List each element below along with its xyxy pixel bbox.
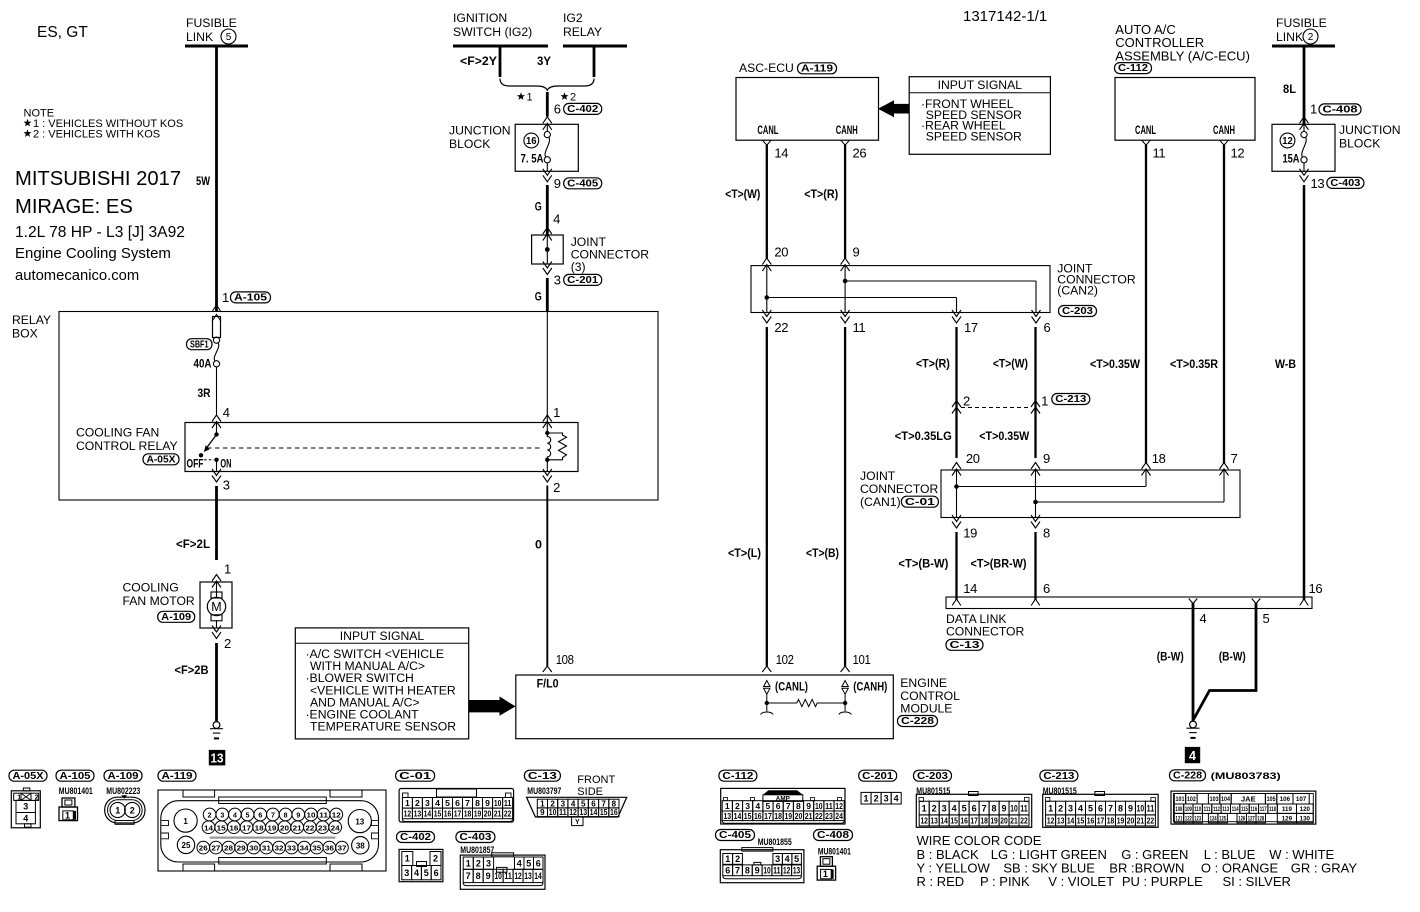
svg-text:C-01: C-01 bbox=[905, 497, 935, 508]
svg-text:14: 14 bbox=[590, 808, 598, 817]
svg-text:17: 17 bbox=[242, 825, 251, 832]
input signal box (A/C etc) bbox=[295, 628, 468, 739]
svg-text:MU801401: MU801401 bbox=[59, 786, 93, 796]
svg-text:V : VIOLET: V : VIOLET bbox=[1048, 874, 1114, 889]
svg-text:124: 124 bbox=[1210, 815, 1217, 822]
svg-text:102: 102 bbox=[1187, 796, 1196, 803]
svg-text:13: 13 bbox=[793, 866, 800, 876]
svg-text:FUSIBLE: FUSIBLE bbox=[186, 16, 237, 30]
svg-text:9: 9 bbox=[540, 808, 545, 817]
svg-text:C-01: C-01 bbox=[399, 771, 431, 782]
svg-text:22: 22 bbox=[1147, 815, 1155, 825]
svg-text:7. 5A: 7. 5A bbox=[521, 152, 544, 166]
svg-text:5: 5 bbox=[226, 32, 232, 43]
svg-text:16: 16 bbox=[229, 825, 238, 832]
svg-text:8: 8 bbox=[612, 799, 617, 808]
svg-text:103: 103 bbox=[1210, 796, 1219, 803]
svg-text:9: 9 bbox=[554, 176, 561, 191]
svg-text:C-13: C-13 bbox=[950, 640, 980, 651]
svg-text:(CAN1): (CAN1) bbox=[860, 495, 901, 509]
svg-text:5: 5 bbox=[1263, 611, 1270, 626]
svg-text:<F>2L: <F>2L bbox=[176, 537, 210, 551]
svg-text:SWITCH (IG2): SWITCH (IG2) bbox=[453, 25, 532, 39]
svg-text:7: 7 bbox=[1231, 451, 1238, 466]
svg-text:15: 15 bbox=[600, 808, 608, 817]
ECM CAN termination bbox=[761, 680, 888, 715]
svg-text:20: 20 bbox=[774, 245, 788, 260]
data link connector C-13 box bbox=[946, 597, 1312, 651]
svg-text:C-228: C-228 bbox=[901, 716, 934, 727]
svg-text:SIDE: SIDE bbox=[577, 786, 603, 798]
svg-text:37: 37 bbox=[338, 846, 347, 853]
svg-text:11: 11 bbox=[1020, 803, 1027, 813]
CAN1 exits 19 8 bbox=[952, 515, 1050, 541]
svg-text:BLOCK: BLOCK bbox=[449, 137, 490, 151]
svg-text:14: 14 bbox=[1067, 815, 1075, 825]
svg-text:15: 15 bbox=[950, 815, 958, 825]
svg-text:SBF1: SBF1 bbox=[190, 339, 209, 350]
svg-text:INPUT SIGNAL: INPUT SIGNAL bbox=[340, 629, 425, 643]
IG2 relay bbox=[537, 11, 627, 77]
svg-text:7: 7 bbox=[786, 801, 791, 811]
svg-text:C-402: C-402 bbox=[400, 832, 431, 843]
svg-text:1: 1 bbox=[183, 817, 188, 826]
svg-text:C-402: C-402 bbox=[567, 104, 598, 115]
svg-text:4: 4 bbox=[414, 868, 419, 878]
svg-text:17: 17 bbox=[1097, 815, 1105, 825]
svg-text:11: 11 bbox=[504, 798, 512, 808]
svg-text:<T>0.35W: <T>0.35W bbox=[979, 429, 1030, 443]
svg-text:11: 11 bbox=[825, 801, 833, 811]
svg-text:12: 12 bbox=[783, 866, 790, 876]
svg-text:4: 4 bbox=[1078, 803, 1083, 813]
svg-text:5: 5 bbox=[766, 801, 771, 811]
svg-text:1.2L 78 HP - L3 [J] 3A92: 1.2L 78 HP - L3 [J] 3A92 bbox=[15, 224, 185, 241]
svg-text:130: 130 bbox=[1300, 815, 1311, 822]
svg-text:31: 31 bbox=[262, 846, 271, 853]
svg-text:ENGINE: ENGINE bbox=[900, 676, 947, 690]
svg-text:CANL: CANL bbox=[1135, 123, 1156, 137]
svg-text:M: M bbox=[211, 600, 221, 614]
svg-text:MU801855: MU801855 bbox=[758, 837, 792, 847]
svg-text:SI : SILVER: SI : SILVER bbox=[1223, 874, 1291, 889]
svg-text:11: 11 bbox=[773, 866, 780, 876]
svg-text:A-119: A-119 bbox=[801, 63, 833, 74]
svg-text:102: 102 bbox=[776, 652, 794, 667]
svg-text:12: 12 bbox=[1282, 136, 1293, 147]
svg-text:38: 38 bbox=[356, 842, 365, 851]
wire 8L to junction block bbox=[1283, 46, 1361, 130]
svg-text:15: 15 bbox=[744, 811, 752, 821]
ASC-ECU pins 14 26 bbox=[763, 140, 867, 160]
svg-text:27: 27 bbox=[211, 846, 220, 853]
C-228 ref label under ground bbox=[1170, 770, 1206, 781]
svg-text:30: 30 bbox=[249, 846, 258, 853]
svg-text:120: 120 bbox=[1300, 806, 1311, 813]
svg-text:8: 8 bbox=[992, 803, 997, 813]
svg-text:9: 9 bbox=[296, 813, 300, 820]
connector C-405 bbox=[716, 830, 804, 883]
wire 22 to ECM 102, T(L) bbox=[728, 327, 794, 672]
svg-text:C-203: C-203 bbox=[1062, 306, 1093, 317]
svg-text:ES, GT: ES, GT bbox=[37, 24, 88, 41]
node 1 A-105 bbox=[212, 290, 270, 321]
wire G into relay box bbox=[535, 278, 548, 312]
svg-text:22: 22 bbox=[815, 811, 823, 821]
svg-text:18: 18 bbox=[1107, 815, 1115, 825]
svg-text:28: 28 bbox=[224, 846, 233, 853]
svg-text:13: 13 bbox=[579, 808, 587, 817]
ASC-ECU A-119 box bbox=[736, 61, 879, 140]
svg-text:1317142-1/1: 1317142-1/1 bbox=[963, 8, 1047, 25]
svg-text:11: 11 bbox=[559, 808, 567, 817]
connector C-213 bbox=[1040, 770, 1158, 827]
svg-text:114: 114 bbox=[1232, 806, 1239, 813]
svg-text:ASC-ECU: ASC-ECU bbox=[739, 61, 794, 75]
relay box bbox=[12, 312, 658, 501]
svg-text:111: 111 bbox=[1204, 806, 1211, 813]
wire CANL 14-20, T(W) bbox=[725, 145, 788, 271]
svg-text:6: 6 bbox=[554, 102, 561, 117]
svg-text:118: 118 bbox=[1269, 806, 1276, 813]
svg-text:3: 3 bbox=[775, 854, 780, 864]
svg-text:<T>(R): <T>(R) bbox=[916, 357, 950, 371]
svg-text:13: 13 bbox=[524, 871, 531, 881]
svg-text:MODULE: MODULE bbox=[900, 702, 952, 716]
svg-text:12: 12 bbox=[514, 871, 521, 881]
svg-text:9: 9 bbox=[1002, 803, 1007, 813]
svg-text:<T>(B): <T>(B) bbox=[806, 546, 839, 560]
connector C-112 bbox=[719, 770, 845, 824]
svg-text:40A: 40A bbox=[194, 357, 212, 371]
svg-text:19: 19 bbox=[963, 526, 977, 541]
svg-text:MU802223: MU802223 bbox=[106, 786, 140, 796]
node 13 C-403, wire W-B to DLC 16 bbox=[1275, 176, 1364, 606]
svg-text:2: 2 bbox=[208, 813, 212, 820]
svg-text:GR : GRAY: GR : GRAY bbox=[1291, 861, 1358, 876]
connector C-203 bbox=[914, 770, 1032, 827]
svg-text:2: 2 bbox=[874, 793, 879, 803]
svg-text:105: 105 bbox=[1267, 796, 1276, 803]
svg-text:3: 3 bbox=[554, 273, 561, 288]
svg-text:121: 121 bbox=[1176, 815, 1183, 822]
svg-text:A-109: A-109 bbox=[108, 771, 139, 782]
svg-text:JUNCTION: JUNCTION bbox=[449, 124, 511, 138]
connector A-109 bbox=[104, 770, 145, 824]
svg-text:8: 8 bbox=[1118, 803, 1123, 813]
svg-text:5: 5 bbox=[794, 854, 799, 864]
svg-text:7: 7 bbox=[1108, 803, 1113, 813]
svg-text:4: 4 bbox=[571, 799, 576, 808]
svg-text:2: 2 bbox=[415, 798, 420, 808]
svg-text:18: 18 bbox=[1152, 451, 1166, 466]
svg-text:17: 17 bbox=[970, 815, 978, 825]
svg-text:A-05X: A-05X bbox=[13, 771, 44, 782]
svg-text:7: 7 bbox=[271, 813, 275, 820]
svg-text:13: 13 bbox=[414, 808, 422, 818]
svg-text:9: 9 bbox=[485, 798, 490, 808]
svg-text:5: 5 bbox=[424, 868, 429, 878]
svg-text:3: 3 bbox=[942, 803, 947, 813]
input signal box (wheel speed sensors) bbox=[909, 77, 1050, 155]
svg-text:6: 6 bbox=[1043, 581, 1050, 596]
svg-text:12: 12 bbox=[920, 815, 928, 825]
junction block 12 15A bbox=[1272, 123, 1401, 182]
svg-text:1: 1 bbox=[405, 854, 410, 864]
svg-text:C-403: C-403 bbox=[459, 832, 491, 843]
svg-text:ASSEMBLY (A/C-ECU): ASSEMBLY (A/C-ECU) bbox=[1115, 48, 1250, 63]
CAN1 internal links bbox=[954, 470, 1224, 518]
svg-text:16: 16 bbox=[960, 815, 968, 825]
wire color code legend bbox=[917, 833, 1358, 889]
relay coil and resistor pin 1 / pin 2 bbox=[543, 312, 567, 496]
svg-text:12: 12 bbox=[332, 813, 341, 820]
svg-text:10: 10 bbox=[1137, 803, 1144, 813]
svg-text:G: G bbox=[535, 290, 542, 304]
svg-text:0: 0 bbox=[535, 538, 542, 552]
svg-text:9: 9 bbox=[1043, 451, 1050, 466]
svg-text:10: 10 bbox=[306, 813, 315, 820]
connector C-228 bbox=[1171, 771, 1316, 824]
svg-text:15: 15 bbox=[1077, 815, 1085, 825]
svg-text:1: 1 bbox=[1041, 394, 1048, 409]
connector C-408 bbox=[814, 830, 853, 881]
svg-text:2: 2 bbox=[476, 858, 481, 868]
svg-text:9: 9 bbox=[755, 866, 760, 876]
svg-text:(B-W): (B-W) bbox=[1157, 650, 1184, 664]
svg-text:5: 5 bbox=[445, 798, 450, 808]
svg-text:3: 3 bbox=[486, 858, 491, 868]
svg-text:108: 108 bbox=[556, 652, 574, 667]
svg-text:20: 20 bbox=[795, 811, 803, 821]
C-213 dashed link bbox=[961, 407, 1031, 409]
svg-text:FRONT: FRONT bbox=[577, 774, 615, 786]
svg-text:14: 14 bbox=[204, 825, 213, 832]
svg-text:22: 22 bbox=[305, 825, 314, 832]
svg-text:TEMPERATURE SENSOR: TEMPERATURE SENSOR bbox=[310, 720, 456, 734]
svg-text:17: 17 bbox=[964, 320, 978, 335]
svg-text:Engine Cooling System: Engine Cooling System bbox=[15, 245, 171, 262]
svg-text:RELAY: RELAY bbox=[12, 313, 51, 327]
svg-text:<T>(W): <T>(W) bbox=[993, 357, 1028, 371]
svg-text:4: 4 bbox=[1189, 749, 1196, 763]
connector C-01 bbox=[396, 770, 514, 822]
svg-text:CANL: CANL bbox=[757, 123, 778, 137]
svg-text:3: 3 bbox=[745, 801, 750, 811]
svg-text:14: 14 bbox=[963, 581, 977, 596]
svg-text:15: 15 bbox=[434, 808, 442, 818]
svg-text:RELAY: RELAY bbox=[563, 25, 602, 39]
svg-text:2: 2 bbox=[963, 394, 970, 409]
svg-text:115: 115 bbox=[1241, 806, 1248, 813]
svg-text:4: 4 bbox=[553, 212, 560, 227]
svg-text:INPUT SIGNAL: INPUT SIGNAL bbox=[938, 78, 1023, 92]
svg-text:1: 1 bbox=[725, 801, 730, 811]
svg-text:18: 18 bbox=[255, 825, 264, 832]
svg-text:20: 20 bbox=[1127, 815, 1135, 825]
title block bbox=[15, 8, 1047, 284]
svg-text:25: 25 bbox=[182, 841, 191, 850]
svg-text:1: 1 bbox=[823, 869, 828, 879]
svg-text:126: 126 bbox=[1238, 815, 1245, 822]
svg-text:9: 9 bbox=[486, 871, 491, 881]
svg-text:12: 12 bbox=[1231, 146, 1245, 161]
svg-text:MIRAGE: ES: MIRAGE: ES bbox=[15, 196, 133, 218]
svg-text:A-05X: A-05X bbox=[147, 454, 176, 465]
wire to junction block, 6 C-402 bbox=[543, 92, 602, 130]
svg-text:5: 5 bbox=[246, 813, 250, 820]
svg-text:101: 101 bbox=[853, 652, 871, 667]
svg-text:C-112: C-112 bbox=[722, 771, 753, 782]
svg-text:4: 4 bbox=[785, 854, 790, 864]
connector C-403 bbox=[456, 832, 545, 890]
svg-text:C-201: C-201 bbox=[862, 771, 893, 782]
DLC pins 4 5 exits bbox=[1189, 599, 1270, 627]
svg-text:17: 17 bbox=[764, 811, 772, 821]
svg-text:6: 6 bbox=[725, 866, 730, 876]
svg-text:9: 9 bbox=[806, 801, 811, 811]
svg-text:IG2: IG2 bbox=[563, 11, 583, 25]
C-112 pins 11 12 bbox=[1142, 140, 1245, 160]
svg-text:C-403: C-403 bbox=[1330, 178, 1360, 189]
svg-text:110: 110 bbox=[1194, 806, 1201, 813]
svg-text:Y: Y bbox=[575, 819, 580, 826]
svg-text:24: 24 bbox=[835, 811, 843, 821]
svg-text:<T>0.35LG: <T>0.35LG bbox=[895, 429, 952, 443]
svg-text:13: 13 bbox=[723, 811, 731, 821]
svg-text:C-408: C-408 bbox=[1323, 105, 1358, 116]
svg-text:<T>(B-W): <T>(B-W) bbox=[898, 557, 948, 571]
fusible link 5 bbox=[185, 16, 248, 46]
svg-text:6: 6 bbox=[776, 801, 781, 811]
svg-text:113: 113 bbox=[1222, 806, 1229, 813]
svg-text:JUNCTION: JUNCTION bbox=[1339, 123, 1401, 137]
svg-text:23: 23 bbox=[825, 811, 833, 821]
svg-text:C-213: C-213 bbox=[1055, 394, 1086, 405]
brace merge bbox=[500, 79, 594, 104]
svg-text:17: 17 bbox=[454, 808, 462, 818]
svg-text:10: 10 bbox=[494, 871, 501, 881]
svg-text:6: 6 bbox=[536, 858, 541, 868]
svg-text:4: 4 bbox=[952, 803, 957, 813]
svg-text:LINK: LINK bbox=[1276, 30, 1303, 44]
svg-text:ON: ON bbox=[220, 457, 231, 471]
engine control module C-228 box bbox=[516, 675, 960, 739]
svg-text:5: 5 bbox=[581, 799, 586, 808]
node 9 C-405, wire G down bbox=[535, 176, 602, 241]
svg-text:19: 19 bbox=[474, 808, 482, 818]
svg-text:19: 19 bbox=[267, 825, 276, 832]
svg-text:22: 22 bbox=[504, 808, 512, 818]
svg-text:6: 6 bbox=[434, 868, 439, 878]
svg-text:6: 6 bbox=[591, 799, 596, 808]
joint connector (CAN1) C-01 box bbox=[860, 469, 1240, 518]
svg-text:12: 12 bbox=[835, 801, 843, 811]
svg-text:2 : VEHICLES WITH KOS: 2 : VEHICLES WITH KOS bbox=[33, 129, 160, 141]
ignition switch (IG2) bbox=[453, 11, 548, 77]
svg-text:8: 8 bbox=[796, 801, 801, 811]
svg-text:1: 1 bbox=[1310, 102, 1317, 117]
svg-text:C-201: C-201 bbox=[567, 275, 598, 286]
svg-text:5W: 5W bbox=[196, 174, 211, 188]
svg-text:104: 104 bbox=[1221, 796, 1230, 803]
svg-text:3: 3 bbox=[561, 799, 566, 808]
svg-text:(CAN2): (CAN2) bbox=[1057, 284, 1098, 298]
svg-text:7: 7 bbox=[466, 871, 471, 881]
relay actuation dashed line bbox=[207, 447, 541, 449]
CAN2 internal links bbox=[765, 266, 1037, 313]
fusible link SBF1 40A bbox=[187, 317, 221, 416]
wire fusible link 5 to relay box, 5W bbox=[196, 46, 217, 312]
svg-text:2: 2 bbox=[433, 854, 438, 864]
wire 11 to CAN1 18, T0.35W bbox=[1090, 145, 1166, 476]
svg-text:128: 128 bbox=[1257, 815, 1264, 822]
svg-text:6: 6 bbox=[972, 803, 977, 813]
svg-text:14: 14 bbox=[534, 871, 541, 881]
svg-text:11: 11 bbox=[853, 320, 866, 335]
svg-text:12: 12 bbox=[404, 808, 412, 818]
input signal arrow to ECM bbox=[469, 697, 516, 716]
svg-text:3: 3 bbox=[223, 478, 230, 493]
svg-text:101: 101 bbox=[1176, 796, 1185, 803]
wire 11 to ECM 101, T(B) bbox=[806, 327, 871, 672]
svg-text:2: 2 bbox=[570, 92, 576, 104]
svg-text:22: 22 bbox=[774, 320, 788, 335]
auto A/C controller assembly C-112 box bbox=[1115, 22, 1256, 140]
svg-text:9: 9 bbox=[1128, 803, 1133, 813]
svg-text:1: 1 bbox=[725, 854, 730, 864]
CAN2 exits 22 11 17 6 bbox=[762, 310, 1050, 335]
svg-text:3Y: 3Y bbox=[537, 54, 551, 68]
svg-text:9: 9 bbox=[853, 245, 860, 260]
cooling fan motor A-109 bbox=[123, 562, 233, 652]
svg-text:MU801401: MU801401 bbox=[818, 847, 851, 857]
svg-text:20: 20 bbox=[484, 808, 492, 818]
svg-text:IGNITION: IGNITION bbox=[453, 11, 507, 25]
svg-text:JAE: JAE bbox=[1241, 794, 1256, 803]
wire CANH 26-9, T(R) bbox=[804, 145, 859, 271]
svg-text:A-109: A-109 bbox=[161, 612, 191, 623]
svg-text:G: G bbox=[535, 200, 542, 214]
svg-text:C-13: C-13 bbox=[528, 771, 557, 782]
wire 12 to CAN1 7, T0.35R bbox=[1170, 145, 1238, 476]
wire DLC 4 to ground, (B-W) bbox=[1157, 603, 1193, 721]
svg-text:12: 12 bbox=[569, 808, 577, 817]
svg-text:<T>(R): <T>(R) bbox=[804, 187, 838, 201]
svg-text:(3): (3) bbox=[571, 260, 586, 274]
svg-text:22: 22 bbox=[1020, 815, 1028, 825]
svg-text:3R: 3R bbox=[198, 386, 211, 400]
svg-text:2: 2 bbox=[932, 803, 937, 813]
wire motor to ground, F2B bbox=[175, 643, 217, 721]
svg-text:14: 14 bbox=[774, 146, 788, 161]
svg-text:A-119: A-119 bbox=[162, 771, 193, 782]
svg-text:4: 4 bbox=[1200, 611, 1207, 626]
svg-text:4: 4 bbox=[223, 405, 230, 420]
connector C-13 (OBD) bbox=[524, 770, 626, 826]
wire 17-2-20, T(R), T0.35LG bbox=[895, 327, 980, 476]
svg-text:6: 6 bbox=[1098, 803, 1103, 813]
svg-text:P : PINK: P : PINK bbox=[980, 874, 1030, 889]
svg-text:CONNECTOR: CONNECTOR bbox=[946, 625, 1025, 639]
svg-text:1: 1 bbox=[222, 290, 229, 305]
svg-text:117: 117 bbox=[1260, 806, 1267, 813]
svg-text:SPEED SENSOR: SPEED SENSOR bbox=[926, 129, 1022, 143]
svg-text:F/L0: F/L0 bbox=[537, 677, 559, 691]
ground 4 bbox=[1185, 721, 1200, 763]
svg-text:18: 18 bbox=[464, 808, 472, 818]
wire DLC 5 to ground, (B-W) bbox=[1194, 603, 1257, 720]
